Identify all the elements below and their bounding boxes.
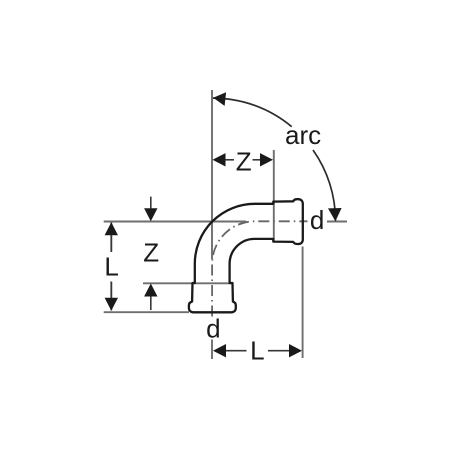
svg-text:Z: Z — [143, 238, 159, 268]
svg-text:d: d — [206, 313, 220, 343]
svg-text:Z: Z — [236, 147, 252, 177]
svg-text:arc: arc — [285, 120, 321, 150]
svg-text:L: L — [250, 335, 264, 365]
svg-text:d: d — [310, 205, 324, 235]
svg-text:L: L — [104, 252, 118, 282]
